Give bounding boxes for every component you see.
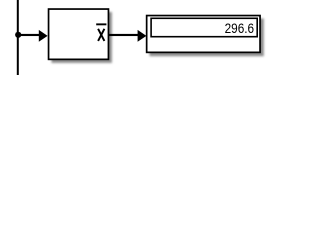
- arrowhead into Display block: [138, 30, 147, 42]
- Mean block icon overline: [96, 23, 106, 25]
- arrowhead into Mean block: [39, 30, 48, 42]
- Display block shadow: [150, 19, 264, 57]
- junction dot: [15, 32, 21, 38]
- wire vertical signal line: [17, 0, 19, 75]
- svg-text:296.6: 296.6: [225, 20, 255, 36]
- wire to Mean block input: [18, 34, 40, 36]
- Mean block body: [49, 9, 109, 59]
- Mean block icon X: [98, 29, 104, 41]
- wire from Mean block to Display: [109, 34, 139, 36]
- Mean block shadow: [52, 12, 112, 63]
- Display value field: [151, 18, 257, 36]
- Display block body: [147, 16, 260, 53]
